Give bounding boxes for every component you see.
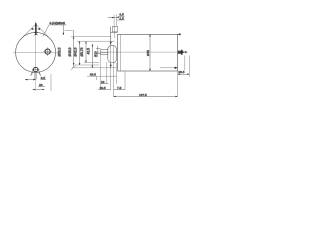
- dim line x92.4: [91, 44, 93, 68]
- stud extension verticals: [34, 72, 36, 80]
- svg-text:36.5: 36.5: [90, 73, 96, 77]
- extension line y41.2: [77, 40, 115, 42]
- right side extension verticals: [184, 56, 186, 71]
- flange left vertical above and below boss: [110, 27, 112, 46]
- svg-text:4-(A2)M3x8: 4-(A2)M3x8: [49, 21, 65, 25]
- svg-text:Ø45.5: Ø45.5: [68, 47, 72, 56]
- dim line below 26 with end ticks: [33, 89, 45, 91]
- svg-text:Ø45: Ø45: [146, 50, 150, 56]
- extension line y62.5: [84, 62, 99, 64]
- side view horizontal centerline: [95, 51, 188, 53]
- dim line with arrows left of centerline: [25, 79, 36, 81]
- tent / terminal cover lines on top of circle: [22, 24, 50, 38]
- terminal width arrows horizontal: [32, 28, 40, 30]
- flange top line: [111, 31, 118, 33]
- bottom stud wings: [31, 68, 41, 76]
- bottom-left extension verticals: [100, 55, 102, 90]
- terminal block on side view top: [112, 26, 117, 32]
- dim line x86: [85, 41, 87, 62]
- top-right corner tick: [178, 33, 181, 35]
- hub rect protruding left: [101, 50, 108, 55]
- long extension line y67.8 with right arrow: [72, 67, 117, 69]
- dim line x73.6: [73, 31, 75, 67]
- body diameter dim Ø45: [149, 34, 151, 71]
- svg-text:29.5: 29.5: [100, 86, 106, 90]
- left view vertical centerline: [35, 22, 37, 92]
- svg-text:Ø42.5: Ø42.5: [73, 47, 77, 56]
- extension line y65: [75, 64, 100, 66]
- stadium height dim arrows: [110, 42, 112, 66]
- extension line y30.7: [65, 30, 74, 32]
- svg-text:Ø38.5: Ø38.5: [58, 47, 62, 56]
- shaft dim arrow: [184, 51, 187, 53]
- svg-text:7.5: 7.5: [117, 86, 122, 90]
- bottom stud with hole: [34, 67, 38, 71]
- terminal block at apex (dark bar): [35, 23, 37, 35]
- svg-text:Ø10: Ø10: [93, 51, 97, 57]
- label vertical arrow line: [62, 25, 64, 35]
- stadium boss on flange: [108, 45, 117, 63]
- extension line y76.2 with 36.5 label: [87, 75, 117, 77]
- body inner line near left: [119, 34, 121, 71]
- shaft with collar: [178, 51, 183, 54]
- terminal X hatch: [34, 32, 38, 36]
- body right edge extension down: [177, 71, 179, 97]
- mounting hole right of center: [45, 49, 50, 54]
- svg-text:29.5: 29.5: [178, 70, 184, 74]
- motor body rectangle: [118, 34, 178, 71]
- dim line x79.6: [79, 41, 81, 65]
- oblique stroke at dim bottom: [71, 65, 76, 70]
- extension line y36.6: [71, 36, 111, 38]
- far-left hub diameter dim: [97, 46, 99, 57]
- terminal dimension arrows vertical: [35, 23, 37, 35]
- left view horizontal centerline: [13, 51, 58, 53]
- svg-text:43.5: 43.5: [87, 48, 91, 55]
- right extension vertical x51: [50, 74, 52, 91]
- left view: motor end-view outline circle: [16, 32, 56, 72]
- svg-text:Ø5.75: Ø5.75: [80, 47, 84, 56]
